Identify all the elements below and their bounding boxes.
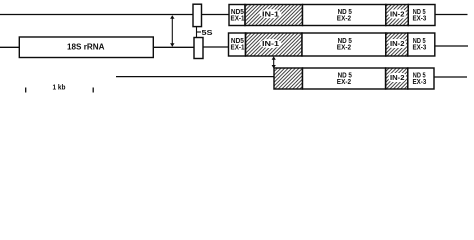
wire row2 left — [0, 46, 20, 48]
svg-text:EX-3: EX-3 — [413, 79, 427, 86]
18S rRNA box — [19, 37, 153, 58]
exon box ND5 EX-3 row1 — [408, 5, 435, 26]
5S gene box row2 — [194, 38, 203, 59]
exon box ND5 EX-2 row1 — [303, 5, 386, 26]
5S label tick — [197, 31, 202, 33]
wire row3 right — [434, 76, 467, 78]
5S gene box row1 — [193, 4, 202, 26]
svg-text:5S: 5S — [202, 30, 213, 37]
wire row3 left — [116, 76, 274, 78]
wire row1 mid — [202, 14, 229, 16]
exon box ND5 EX-3 row3 — [408, 68, 434, 89]
intron IN-1 hatched row1 — [245, 5, 303, 26]
intron IN-2 hatched row2 — [386, 33, 408, 56]
svg-text:IN-2: IN-2 — [390, 41, 405, 48]
svg-text:IN-2: IN-2 — [390, 75, 405, 82]
svg-text:IN-1: IN-1 — [262, 41, 279, 48]
svg-text:EX-1: EX-1 — [231, 45, 245, 52]
exon box ND5 EX-3 row2 — [408, 33, 435, 56]
wire row2 mid2 — [203, 46, 229, 48]
svg-text:EX-1: EX-1 — [231, 16, 245, 23]
double arrow rows2-3 — [272, 56, 276, 68]
svg-text:IN-2: IN-2 — [390, 11, 405, 18]
intron IN-1 hatched row2 — [246, 33, 303, 56]
scale bar tick right — [92, 88, 94, 93]
svg-text:18S rRNA: 18S rRNA — [67, 43, 105, 52]
svg-text:EX-2: EX-2 — [337, 79, 351, 86]
wire row2 mid1 — [153, 46, 194, 48]
wire row2 right — [435, 45, 468, 47]
svg-text:1 kb: 1 kb — [53, 82, 66, 91]
double arrow rows1-2 — [170, 15, 174, 47]
intron remnant hatched row3 — [274, 68, 303, 89]
5S connector wire — [196, 27, 198, 38]
exon box ND5 EX-2 row3 — [303, 68, 386, 89]
wire row1 right — [435, 14, 468, 16]
scale bar tick left — [25, 88, 27, 93]
intron IN-2 hatched row1 — [386, 5, 409, 26]
svg-text:IN-1: IN-1 — [262, 11, 279, 18]
svg-text:EX-2: EX-2 — [337, 15, 351, 22]
svg-text:EX-3: EX-3 — [413, 45, 427, 52]
wire row1 left — [0, 14, 193, 16]
svg-text:EX-3: EX-3 — [413, 16, 427, 23]
exon box ND5 EX-2 row2 — [302, 33, 386, 56]
svg-text:EX-2: EX-2 — [337, 45, 351, 52]
exon box ND5 EX-1 row2 — [229, 33, 246, 56]
intron IN-2 hatched row3 — [386, 68, 408, 89]
exon box ND5 EX-1 row1 — [229, 5, 245, 26]
